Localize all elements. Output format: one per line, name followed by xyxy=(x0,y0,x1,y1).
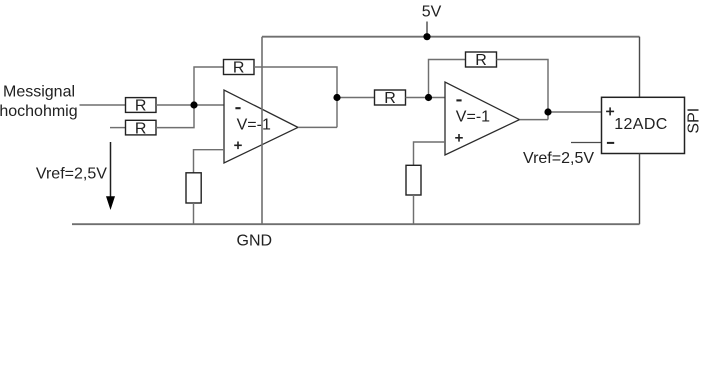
wire feedback right op-amp 2 xyxy=(497,60,549,120)
resistor (vertical, op-amp 2 + to GND) xyxy=(406,165,421,195)
svg-text:Vref=2,5V: Vref=2,5V xyxy=(523,150,594,167)
svg-text:V=-1: V=-1 xyxy=(237,116,271,133)
ADC U3 12ADC xyxy=(602,97,685,153)
svg-text:Messignal: Messignal xyxy=(3,84,75,101)
resistor R (input, lower) xyxy=(126,120,157,137)
svg-text:R: R xyxy=(233,60,245,77)
op-amp U1 xyxy=(224,90,298,163)
svg-text:R: R xyxy=(135,98,147,115)
wire feedback left riser op-amp 1 xyxy=(194,67,224,105)
op-amp U2 xyxy=(445,82,520,155)
wire op-amp 2 output xyxy=(520,119,549,121)
resistor R (series between stages) xyxy=(375,90,406,107)
wire series R to op-amp 2 input xyxy=(406,97,446,99)
wire non-inverting input op-amp 2 xyxy=(414,142,446,165)
resistor R (input, upper) xyxy=(126,98,157,115)
wire feedback right op-amp 1 xyxy=(254,67,337,127)
junction op-amp 1 output node xyxy=(333,94,340,101)
wire Vref to ADC minus input xyxy=(571,142,602,144)
svg-text:R: R xyxy=(475,52,487,69)
svg-text:hochohmig: hochohmig xyxy=(0,103,78,120)
node B junction xyxy=(425,94,432,101)
svg-text:SPI: SPI xyxy=(685,108,702,134)
wire feedback left riser op-amp 2 xyxy=(429,60,466,98)
voltage arrow Vref (down) xyxy=(106,142,115,210)
wire op-amp 1 output xyxy=(298,126,337,128)
svg-text:R: R xyxy=(384,90,396,107)
resistor R (feedback op-amp 1) xyxy=(224,60,255,77)
wire ADC bottom to GND xyxy=(639,154,641,225)
wire input signal xyxy=(80,104,126,106)
wire output to ADC plus input xyxy=(548,111,602,113)
svg-text:12ADC: 12ADC xyxy=(614,116,668,133)
junction op-amp 2 output node xyxy=(544,108,551,115)
svg-text:GND: GND xyxy=(237,233,273,250)
junction on 5V rail xyxy=(423,33,430,40)
wire input R to inverting input xyxy=(156,104,224,106)
node A junction xyxy=(190,101,197,108)
wire supply rail drop (5V to GND through U1) xyxy=(261,37,263,225)
wire output node to series R xyxy=(337,97,375,99)
wire GND rail xyxy=(72,223,640,225)
wire 5V rail xyxy=(262,36,640,38)
wire resistor to GND xyxy=(413,195,415,224)
resistor (vertical, op-amp 1 + to GND) xyxy=(186,173,201,203)
wire non-inverting input op-amp 1 xyxy=(194,150,225,173)
wire 5V label tick xyxy=(426,22,428,37)
resistor R (feedback op-amp 2) xyxy=(466,52,497,69)
svg-text:Vref=2,5V: Vref=2,5V xyxy=(36,165,107,182)
wire lower R to node A xyxy=(156,105,194,128)
svg-text:R: R xyxy=(135,120,147,137)
wire resistor to GND xyxy=(193,203,195,224)
wire 5V to ADC top xyxy=(639,37,641,98)
svg-text:V=-1: V=-1 xyxy=(456,108,490,125)
svg-text:5V: 5V xyxy=(422,4,442,21)
wire stub lower R xyxy=(110,127,126,129)
